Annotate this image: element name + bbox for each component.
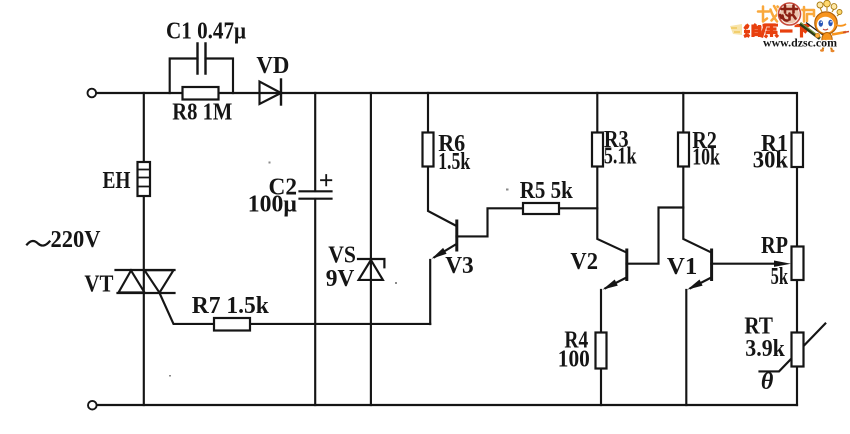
svg-text:V1: V1 <box>667 254 697 280</box>
svg-text:100: 100 <box>558 347 590 373</box>
svg-text:100μ: 100μ <box>248 192 297 218</box>
svg-text:9V: 9V <box>326 266 355 292</box>
svg-text:www.dzsc.com: www.dzsc.com <box>763 36 837 50</box>
svg-text:EH: EH <box>103 168 131 194</box>
svg-text:3.9k: 3.9k <box>745 336 785 362</box>
svg-text:θ: θ <box>761 369 774 395</box>
svg-text:C1 0.47μ: C1 0.47μ <box>166 19 246 45</box>
svg-text:VD: VD <box>256 53 289 79</box>
svg-text:10k: 10k <box>692 145 720 171</box>
svg-text:V3: V3 <box>445 253 474 279</box>
svg-text:VS: VS <box>328 243 356 269</box>
svg-text:5.1k: 5.1k <box>604 144 637 170</box>
svg-text:5k: 5k <box>771 264 789 290</box>
svg-text:30k: 30k <box>753 148 789 174</box>
svg-text:R5 5k: R5 5k <box>520 178 574 204</box>
svg-text:RP: RP <box>761 233 788 259</box>
svg-text:1.5k: 1.5k <box>438 149 470 175</box>
svg-text:220V: 220V <box>51 227 102 253</box>
svg-text:VT: VT <box>84 271 113 297</box>
svg-text:R7 1.5k: R7 1.5k <box>192 293 270 319</box>
svg-text:V2: V2 <box>570 249 598 275</box>
svg-text:R8 1M: R8 1M <box>172 100 232 126</box>
